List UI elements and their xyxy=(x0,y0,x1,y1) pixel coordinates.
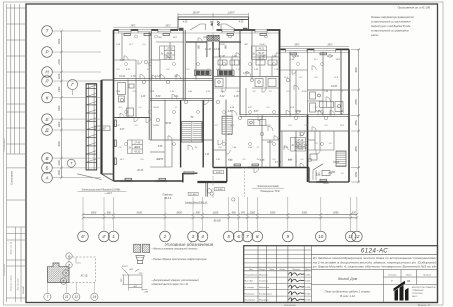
svg-text:Разработал: Разработал xyxy=(245,274,259,276)
svg-text:4.88: 4.88 xyxy=(228,110,233,113)
svg-text:11: 11 xyxy=(65,295,69,299)
svg-text:990: 990 xyxy=(232,212,237,215)
svg-text:19.05: 19.05 xyxy=(305,300,311,302)
svg-text:26.16: 26.16 xyxy=(136,170,143,172)
left dimension rotated texts xyxy=(58,38,61,175)
svg-text:43.30: 43.30 xyxy=(134,151,141,154)
bottom wall middle portion xyxy=(213,167,309,169)
bottom dimension line 1 xyxy=(83,213,357,215)
elevation boxed labels cluster xyxy=(184,171,224,196)
stamp signature row texts xyxy=(245,274,273,301)
svg-text:7.43: 7.43 xyxy=(316,110,321,113)
svg-text:8.07: 8.07 xyxy=(254,111,259,113)
fixtures upper center flats xyxy=(218,60,277,65)
svg-text:3.45: 3.45 xyxy=(260,159,265,162)
bottom extension lines to circles xyxy=(83,197,357,231)
vertical partition x290 xyxy=(289,49,291,115)
site plan outline extension dashed xyxy=(69,257,96,282)
svg-text:К: К xyxy=(46,95,49,100)
description bottom line xyxy=(312,269,438,271)
svg-text:84: 84 xyxy=(407,279,411,283)
svg-text:7.90: 7.90 xyxy=(304,145,309,147)
leader dashed to elektro xyxy=(244,168,246,198)
svg-text:19.05: 19.05 xyxy=(305,293,311,295)
svg-text:26.1: 26.1 xyxy=(119,159,124,161)
svg-text:17.45: 17.45 xyxy=(275,161,281,164)
svg-text:Утвердил: Утвердил xyxy=(245,299,256,302)
svg-text:1200: 1200 xyxy=(58,73,61,79)
stamp signatures squiggles xyxy=(289,272,305,301)
svg-text:Кондратьев: Кондратьев xyxy=(259,292,273,295)
svg-text:Лист: Лист xyxy=(268,269,274,271)
svg-text:2.04: 2.04 xyxy=(115,43,121,46)
svg-text:1600: 1600 xyxy=(58,121,61,127)
porch 2 interior step lines xyxy=(313,164,323,180)
svg-text:3.080: 3.080 xyxy=(216,172,222,174)
svg-text:Мишулин: Мишулин xyxy=(259,300,269,302)
svg-text:17.45: 17.45 xyxy=(134,142,141,145)
svg-text:Стадия: Стадия xyxy=(388,274,397,277)
svg-text:Б: Б xyxy=(46,166,49,171)
svg-text:3000: 3000 xyxy=(58,38,61,44)
svg-text:2.44: 2.44 xyxy=(253,68,259,71)
vertical partition x136 xyxy=(135,80,137,118)
hall partitions center units xyxy=(213,57,280,116)
party wall x240 xyxy=(239,30,241,115)
svg-text:План отделочных работ 1 этажа.: План отделочных работ 1 этажа. xyxy=(325,290,371,294)
wall y76 right of center xyxy=(213,76,280,78)
svg-text:Памятка: Памятка xyxy=(162,195,173,197)
logo text lines xyxy=(412,286,436,298)
stamp header texts xyxy=(249,268,311,271)
svg-text:по вертикальной оси размещения: по вертикальной оси размещения xyxy=(371,30,409,33)
svg-text:2871: 2871 xyxy=(293,45,300,47)
legend item3 text xyxy=(151,279,200,286)
top dimension line above left wall xyxy=(114,26,179,28)
sheet title text xyxy=(325,290,371,299)
bath squares center units xyxy=(215,79,276,87)
building right exterior wall xyxy=(348,49,350,182)
svg-text:2871: 2871 xyxy=(164,26,171,28)
right dimension rotated texts xyxy=(355,67,358,178)
top right paragraph note xyxy=(371,16,415,37)
svg-text:В: В xyxy=(45,156,48,161)
svg-text:13.40: 13.40 xyxy=(219,43,225,46)
small circled marks xyxy=(142,60,327,201)
axis G circle offset xyxy=(68,80,78,90)
lift shaft side walls xyxy=(206,42,208,58)
svg-text:Условные обозначения: Условные обозначения xyxy=(165,242,214,247)
svg-text:1.0500: 1.0500 xyxy=(186,173,193,175)
vertical partition x128 xyxy=(127,80,129,118)
svg-text:8: 8 xyxy=(256,234,259,239)
svg-text:1.0800: 1.0800 xyxy=(153,125,160,127)
bottom dimension ticks xyxy=(82,213,359,219)
svg-text:2871: 2871 xyxy=(335,59,341,61)
lift shaft hatched squares xyxy=(207,35,219,41)
svg-text:36.000: 36.000 xyxy=(213,219,221,222)
svg-text:870: 870 xyxy=(241,212,246,215)
vertical partition x196 xyxy=(195,42,197,80)
svg-text:38.94: 38.94 xyxy=(165,122,171,125)
vertical partition x252 xyxy=(251,30,253,80)
svg-text:1.48: 1.48 xyxy=(141,95,146,98)
svg-text:34.21: 34.21 xyxy=(258,48,265,51)
west stair tower ladder xyxy=(86,84,97,170)
svg-text:1450: 1450 xyxy=(355,171,358,177)
svg-text:Подпись: Подпись xyxy=(292,268,300,271)
svg-text:19.05: 19.05 xyxy=(305,274,311,276)
svg-text:10.66: 10.66 xyxy=(301,91,307,93)
tower label underline xyxy=(78,190,127,192)
svg-text:– Резные обувные электронные и: – Резные обувные электронные инфраструкт… xyxy=(151,258,207,261)
svg-text:ЛК: ЛК xyxy=(190,117,195,119)
svg-text:7: 7 xyxy=(246,234,249,239)
svg-text:17.91: 17.91 xyxy=(243,73,249,75)
svg-text:13.40: 13.40 xyxy=(205,48,211,51)
wall y140 left xyxy=(150,139,213,141)
svg-text:Найдёнов: Найдёнов xyxy=(259,286,270,289)
svg-text:3300: 3300 xyxy=(302,212,308,215)
svg-text:6: 6 xyxy=(237,234,240,239)
west wing bottom connection xyxy=(102,173,114,175)
windows top wall left block xyxy=(119,29,268,33)
svg-text:11: 11 xyxy=(348,234,353,239)
svg-text:1.18: 1.18 xyxy=(234,96,239,98)
svg-text:5150: 5150 xyxy=(137,212,143,215)
svg-text:6': 6' xyxy=(81,234,85,239)
svg-text:2871: 2871 xyxy=(172,37,178,39)
entrance porch 2 lower right xyxy=(309,168,349,183)
svg-text:Морозов: Морозов xyxy=(259,274,269,276)
svg-text:2700: 2700 xyxy=(58,59,61,66)
loggia balcony top outline xyxy=(178,17,249,30)
svg-text:– Декоративный элемент, распол: – Декоративный элемент, расположенный, xyxy=(151,279,200,282)
svg-text:150.97: 150.97 xyxy=(192,12,200,14)
porch door mark circle xyxy=(207,189,211,193)
svg-text:2.44: 2.44 xyxy=(215,68,221,71)
svg-text:250: 250 xyxy=(144,292,149,294)
svg-text:ЛФ: ЛФ xyxy=(216,20,220,26)
building exterior wall top-left block xyxy=(114,29,281,31)
svg-text:Н. контр.: Н. контр. xyxy=(245,287,255,289)
svg-text:7: 7 xyxy=(47,295,49,299)
svg-text:Соколов: Соколов xyxy=(259,281,268,283)
svg-text:Проверил: Проверил xyxy=(245,293,256,295)
more circled marks dense xyxy=(125,35,344,146)
svg-text:1С.45С: 1С.45С xyxy=(189,193,197,196)
svg-text:3.07: 3.07 xyxy=(120,129,125,131)
building exterior wall right block top xyxy=(281,48,350,50)
thick wall x279 xyxy=(279,30,281,168)
svg-text:5.06: 5.06 xyxy=(158,146,163,148)
svg-text:Согласовано: Согласовано xyxy=(12,170,14,185)
svg-text:16.97: 16.97 xyxy=(265,125,271,127)
vertical partition x262 xyxy=(261,116,263,168)
svg-text:Подпись и дата: Подпись и дата xyxy=(10,275,13,291)
svg-text:47.40: 47.40 xyxy=(297,139,304,142)
svg-text:9: 9 xyxy=(287,234,290,239)
svg-text:18.29: 18.29 xyxy=(333,162,339,164)
svg-text:2.04: 2.04 xyxy=(289,58,295,61)
stadiya list listov table xyxy=(384,270,438,285)
svg-text:подвесной высоте марки См п 16: подвесной высоте марки См п 16 xyxy=(152,283,189,286)
svg-text:600: 600 xyxy=(107,212,112,215)
svg-text:2.41: 2.41 xyxy=(187,90,192,93)
building left exterior wall xyxy=(113,30,115,181)
central party wall x213 xyxy=(212,42,214,168)
svg-text:Лист: Лист xyxy=(405,275,412,277)
svg-text:4060: 4060 xyxy=(355,67,358,73)
svg-text:Нач. АО: Нач. АО xyxy=(245,280,253,283)
svg-text:12.08: 12.08 xyxy=(327,56,333,58)
svg-text:24.30: 24.30 xyxy=(292,55,299,58)
svg-text:950: 950 xyxy=(196,212,201,215)
svg-text:1.0677: 1.0677 xyxy=(227,12,235,14)
left margin column table xyxy=(7,4,27,154)
radiator ticks along exterior walls xyxy=(124,34,327,182)
logo cell divider xyxy=(383,285,385,303)
svg-text:13.28: 13.28 xyxy=(155,76,161,78)
svg-text:АС-1Б: АС-1Б xyxy=(80,275,88,278)
svg-text:Формат А4: Формат А4 xyxy=(418,304,431,307)
svg-text:Изм: Изм xyxy=(249,269,253,271)
vertical partition x165 xyxy=(164,100,166,141)
loggia inner funnels xyxy=(190,24,237,30)
svg-text:2990: 2990 xyxy=(332,212,339,215)
svg-text:6124-АС: 6124-АС xyxy=(22,286,25,294)
svg-text:4.50: 4.50 xyxy=(183,21,188,24)
svg-text:8.60: 8.60 xyxy=(156,96,161,98)
svg-text:19.88: 19.88 xyxy=(331,86,337,88)
svg-text:—№13: —№13 xyxy=(103,192,112,195)
wall x307 lower xyxy=(307,115,309,182)
entrance porch 1 xyxy=(183,168,227,197)
windows bottom walls xyxy=(120,167,328,183)
svg-text:Инв. № подл.: Инв. № подл. xyxy=(17,277,20,290)
svg-text:ПРОЕКТНЫХ: ПРОЕКТНЫХ xyxy=(412,293,423,295)
svg-text:1400: 1400 xyxy=(58,169,61,175)
room info box 2 xyxy=(252,46,267,60)
svg-text:Взам. инв. №: Взам. инв. № xyxy=(10,241,13,254)
legend sketch dim texts xyxy=(121,266,149,294)
left axis circle labels xyxy=(44,29,49,181)
extra door arcs right lower xyxy=(300,127,316,168)
wall y90 right block xyxy=(308,89,350,91)
title block stamp verticals xyxy=(258,246,312,303)
svg-text:2400: 2400 xyxy=(58,86,61,93)
corridor wall right block xyxy=(240,114,349,116)
svg-text:4.01: 4.01 xyxy=(316,172,320,175)
stairwell 2 rungs right block xyxy=(336,151,346,167)
site plan left circles xyxy=(60,253,72,284)
svg-text:ЛЖ: ЛЖ xyxy=(197,44,201,50)
right block lower extra partitions xyxy=(296,131,330,176)
svg-text:4000: 4000 xyxy=(58,141,61,147)
svg-text:Электрощитовой-Фасадов 11б/9Бк: Электрощитовой-Фасадов 11б/9Бк xyxy=(82,189,122,192)
lower rooms partitions xyxy=(150,131,334,168)
balcony corner blocks xyxy=(179,28,248,31)
bathroom fixtures cluster left xyxy=(118,83,135,117)
svg-text:1400: 1400 xyxy=(58,160,61,166)
svg-text:Жилой Дом: Жилой Дом xyxy=(337,277,358,281)
right vertical dimension line xyxy=(358,49,360,182)
site plan hatched building xyxy=(47,263,69,282)
stairwell side walls xyxy=(180,100,182,168)
svg-text:5: 5 xyxy=(227,234,230,239)
bottom axis circle labels xyxy=(81,234,360,239)
svg-text:Электрощитовая: Электрощитовая xyxy=(257,185,279,188)
svg-text:3100: 3100 xyxy=(58,105,61,111)
title block outer frame xyxy=(244,246,438,303)
svg-text:1000: 1000 xyxy=(250,212,256,215)
boxed elevation label xyxy=(95,126,110,131)
svg-text:19.05: 19.05 xyxy=(305,287,311,289)
svg-text:Тамбур-Вход (УВ6) д2: Тамбур-Вход (УВ6) д2 xyxy=(185,201,208,204)
svg-text:3.22: 3.22 xyxy=(220,96,225,98)
svg-text:16.94: 16.94 xyxy=(119,75,125,78)
axis T small circle lower xyxy=(67,159,75,167)
balcony top dimension line xyxy=(178,13,249,15)
mid wall right block xyxy=(280,130,350,132)
doc number underline row xyxy=(312,254,438,256)
legend KM symbol xyxy=(134,244,150,252)
svg-text:1: 1 xyxy=(112,234,115,239)
site plan axis circles bottom xyxy=(44,293,98,300)
svg-text:Речевые информаторы размещаютс: Речевые информаторы размещаются xyxy=(371,16,415,19)
bottom axis circles xyxy=(78,231,363,242)
svg-text:ЛБ-4-9: ЛБ-4-9 xyxy=(163,197,172,200)
svg-text:2550: 2550 xyxy=(355,99,358,106)
left block lower room wall xyxy=(114,117,151,119)
right block upper partitions xyxy=(281,49,332,115)
svg-text:2.41: 2.41 xyxy=(204,153,210,156)
svg-text:АРХИТЕКТУРНО-ПЛАНИРОВ.: АРХИТЕКТУРНО-ПЛАНИРОВ. xyxy=(412,286,436,289)
svg-text:620: 620 xyxy=(352,212,357,215)
svg-text:4: 4 xyxy=(201,234,204,239)
svg-text:13.40: 13.40 xyxy=(214,48,220,51)
left axis leader lines xyxy=(52,31,101,178)
wall x341 xyxy=(340,49,342,115)
tower top cap xyxy=(86,83,97,85)
room info box 3 xyxy=(128,140,143,154)
legend bucket symbol xyxy=(136,256,145,261)
svg-text:– Место установки специальной: – Место установки специальной техники xyxy=(151,248,199,251)
corridor wall upper xyxy=(114,78,214,80)
svg-text:56.17: 56.17 xyxy=(258,52,265,55)
svg-text:6124-АС: 6124-АС xyxy=(361,248,388,255)
logo black towers icon xyxy=(394,281,409,301)
legend decorative element sketch xyxy=(122,268,148,291)
svg-text:Согласовано: Согласовано xyxy=(4,138,6,152)
svg-text:2.0300: 2.0300 xyxy=(215,189,223,191)
svg-text:14.2: 14.2 xyxy=(228,133,233,136)
west wing top connection xyxy=(102,79,114,81)
svg-text:2.1: 2.1 xyxy=(248,125,252,127)
svg-text:3650: 3650 xyxy=(355,146,358,152)
svg-text:2.41: 2.41 xyxy=(215,158,220,161)
room info box 4 xyxy=(291,138,306,152)
svg-text:4': 4' xyxy=(102,234,106,239)
svg-text:12: 12 xyxy=(75,295,79,299)
bottom wall left portion xyxy=(114,180,183,182)
windows top wall right block xyxy=(286,48,336,52)
svg-text:Согласовано: Согласовано xyxy=(4,263,6,276)
left vertical dimension line xyxy=(61,31,63,178)
stairwell 1 flight rungs xyxy=(182,122,203,143)
svg-text:2800: 2800 xyxy=(175,212,182,215)
left axis circles xyxy=(42,26,53,183)
kitchen counters center xyxy=(248,120,266,126)
west wing wall xyxy=(100,80,102,174)
svg-text:1550: 1550 xyxy=(355,120,358,126)
more tiny texts scatter xyxy=(115,36,345,175)
tower bottom diagonal leader xyxy=(77,174,101,180)
svg-text:12: 12 xyxy=(354,234,360,239)
svg-text:3: 3 xyxy=(192,234,195,239)
svg-text:2871: 2871 xyxy=(326,45,333,47)
partition details left block upper xyxy=(114,33,242,80)
svg-text:4.50: 4.50 xyxy=(239,21,244,24)
kitchen fixtures right block xyxy=(320,101,343,111)
svg-text:ул. Барса-Моглабс 4, широкими: ул. Барса-Моглабс 4, широкими обычного ч… xyxy=(312,264,437,268)
svg-text:13.40: 13.40 xyxy=(259,43,265,46)
svg-text:Помещение ТСЖ: Помещение ТСЖ xyxy=(260,190,280,193)
svg-text:2: 2 xyxy=(163,234,167,239)
svg-text:2: 2 xyxy=(67,254,70,258)
svg-text:кнопки: кнопки xyxy=(371,35,379,37)
party wall x184 xyxy=(182,30,184,100)
svg-text:14: 14 xyxy=(93,295,97,299)
bottom row divider xyxy=(312,284,438,286)
svg-text:3050: 3050 xyxy=(270,212,276,215)
kitchen counter dark squares left of center xyxy=(195,70,212,76)
svg-text:2871: 2871 xyxy=(129,26,136,28)
svg-text:3000: 3000 xyxy=(91,212,97,215)
svg-text:19.05: 19.05 xyxy=(305,281,311,283)
svg-text:1.70: 1.70 xyxy=(131,76,136,78)
building top wall thin inner line xyxy=(114,32,281,34)
left wall radiators xyxy=(115,120,117,165)
svg-text:РАБОТ: РАБОТ xyxy=(412,295,418,298)
svg-text:Дата: Дата xyxy=(304,269,311,271)
svg-text:74.61: 74.61 xyxy=(297,148,304,151)
stamp dates column xyxy=(305,274,311,301)
scattered room number texts xyxy=(119,12,339,185)
svg-text:2.0: 2.0 xyxy=(173,76,178,78)
vertical partition x296 lower xyxy=(295,131,297,168)
svg-text:Кол.уч: Кол.уч xyxy=(259,269,265,271)
center axis dashed line xyxy=(212,14,214,200)
party wall x150 xyxy=(148,30,150,140)
svg-text:1.1: 1.1 xyxy=(175,107,178,109)
svg-text:А: А xyxy=(44,175,48,180)
svg-text:38.94: 38.94 xyxy=(153,106,159,109)
svg-text:В осях 1-12: В осях 1-12 xyxy=(340,294,355,298)
second stair flight box xyxy=(222,116,232,134)
bottom dimension texts row1 xyxy=(91,212,357,223)
svg-text:2.1: 2.1 xyxy=(340,91,344,93)
svg-text:УПРАВЛЕНИЕ: УПРАВЛЕНИЕ xyxy=(412,289,424,292)
description paragraph xyxy=(312,256,437,268)
kitchen counter dark squares right of center xyxy=(218,70,235,76)
room info box 1 xyxy=(160,46,175,60)
left margin lower cells xyxy=(7,154,27,302)
svg-text:Листов: Листов xyxy=(422,275,432,277)
svg-text:2620: 2620 xyxy=(212,212,219,215)
svg-text:38.11: 38.11 xyxy=(323,183,329,185)
svg-text:63.10: 63.10 xyxy=(122,266,128,268)
